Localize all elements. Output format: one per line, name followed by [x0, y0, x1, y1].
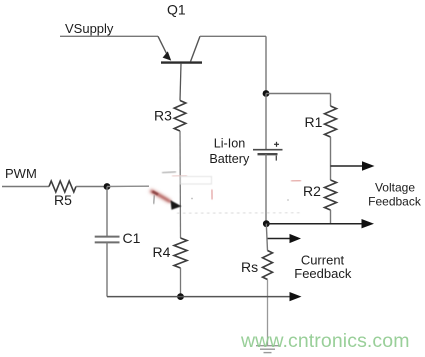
watermark tiny gray dots: [191, 198, 193, 200]
wire C1 bottom: [106, 242, 108, 296]
node junction dot battery bottom: [263, 220, 270, 227]
watermark red 1 mark: [211, 190, 213, 200]
transistor Q1 emitter arrowhead: [163, 51, 172, 60]
watermark gray tick in smudge: [154, 195, 155, 204]
resistor R3: [174, 101, 186, 132]
resistor R4: [174, 238, 187, 268]
wire node toward base divider (fades into watermark): [107, 185, 149, 187]
battery B1 plates: [253, 149, 283, 151]
svg-text:PWM: PWM: [5, 166, 37, 181]
watermark ghost box: [181, 177, 212, 185]
battery minus tick: [275, 156, 277, 161]
svg-text:www.cntronics.com: www.cntronics.com: [240, 330, 410, 352]
wire R5 to node: [76, 186, 107, 188]
resistor R1: [325, 106, 337, 137]
resistor R2: [325, 180, 337, 210]
svg-text:Rs: Rs: [241, 259, 258, 275]
wire R3 bottom to R4 top: [179, 131, 182, 238]
wire R1 bottom to tap: [330, 137, 332, 180]
svg-text:R4: R4: [153, 244, 171, 260]
svg-text:C1: C1: [123, 230, 141, 246]
voltage feedback bottom arrow: [266, 223, 362, 225]
ground symbol: [256, 345, 279, 347]
battery plus sign: [274, 143, 279, 145]
wire R4 bottom: [180, 268, 182, 297]
transistor Q1 collector diagonal: [191, 36, 201, 61]
node junction dot top: [263, 90, 270, 97]
svg-text:R5: R5: [54, 192, 72, 208]
wire R2 bottom: [330, 210, 332, 224]
watermark faint red dash right: [291, 180, 301, 182]
transistor Q1 base stub: [180, 64, 181, 101]
transistor Q1 base bar: [161, 61, 202, 63]
svg-text:Feedback: Feedback: [368, 194, 422, 208]
node junction dot R4 bottom: [177, 293, 184, 300]
svg-text:Battery: Battery: [209, 152, 250, 166]
transistor Q1 emitter wire: [158, 36, 168, 55]
watermark black arrowhead: [171, 200, 182, 210]
watermark dotted gray line: [177, 212, 300, 215]
voltage feedback top arrow: [331, 165, 364, 167]
svg-text:R3: R3: [154, 108, 172, 124]
wire VSupply horizontal: [60, 35, 158, 37]
watermark red smudge arrow: [150, 191, 170, 202]
capacitor C1: [95, 236, 120, 238]
battery wire bottom: [265, 154, 267, 224]
wire collector vertical down: [265, 36, 267, 93]
svg-text:Feedback: Feedback: [294, 266, 352, 281]
battery wire top: [265, 94, 267, 150]
wire node to R1 top: [266, 93, 331, 95]
wire battery node down to Rs: [266, 224, 267, 251]
wire PWM input: [2, 186, 49, 188]
wire collector horizontal to right: [200, 35, 266, 37]
svg-text:Li-Ion: Li-Ion: [214, 137, 246, 151]
wire Rs bottom to ground: [267, 280, 269, 346]
wire node down to C1: [106, 187, 108, 237]
svg-text:R2: R2: [303, 183, 321, 199]
bottom rail wire / current feedback bottom arrow: [107, 296, 290, 298]
watermark faint pink dash: [172, 175, 187, 178]
resistor R5: [49, 181, 76, 192]
svg-text:Q1: Q1: [167, 2, 186, 18]
watermark faint gray dash top: [162, 172, 176, 173]
current feedback top arrow: [267, 238, 291, 240]
resistor Rs: [263, 251, 273, 280]
svg-text:R1: R1: [305, 114, 323, 130]
node junction dot PWM: [104, 183, 111, 190]
svg-text:VSupply: VSupply: [65, 21, 114, 36]
svg-text:Voltage: Voltage: [375, 181, 415, 195]
